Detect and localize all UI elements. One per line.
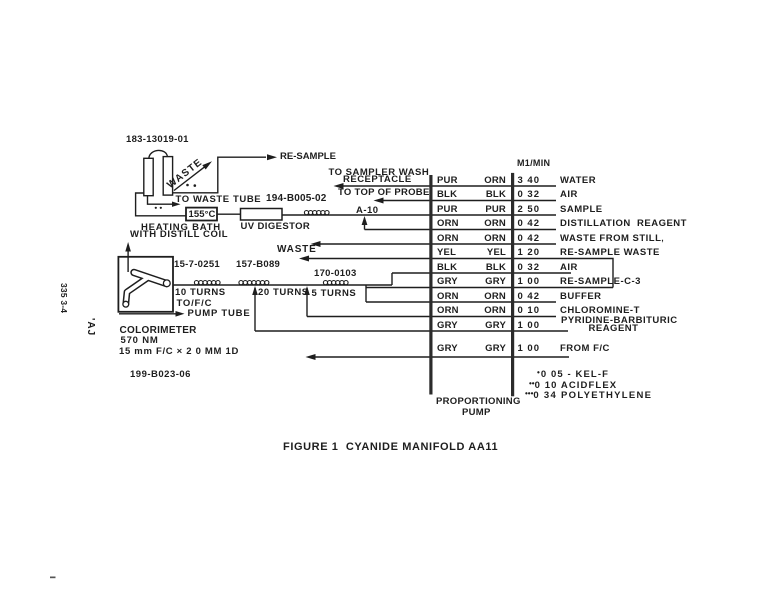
heating bath outline [136,193,186,216]
row 1 line to sampler wash [341,185,556,187]
label RE-SAMPLE [280,152,336,162]
row 12 from f/c line [314,356,569,358]
row 9 buffer [437,292,459,302]
label PUMP [462,408,491,418]
arrowhead row6 left [299,256,309,262]
arrowhead row5 left [311,241,321,247]
colorimeter up arrow shaft [127,247,129,273]
row 6 re-sample waste [437,248,456,258]
waste diagonal wire [174,166,206,190]
arrowhead bath inner [172,202,181,207]
row 9 buffer line [366,301,556,303]
label 10 TURNS [175,288,226,298]
label A-10 [356,206,379,216]
row 6 line re-sample waste with right drop [308,259,614,288]
label 157-B089 [236,260,280,270]
row 4 distillation reagent [437,219,459,229]
arrowhead row1 left [334,183,344,189]
label 5 TURNS [312,289,357,299]
UV digestor box [241,209,283,221]
pump tube arrow under colorimeter [119,313,176,315]
label 570 NM [121,336,159,346]
label 15 mm F/C x 20 MM 1D [119,347,239,357]
row 12 from f/c [437,344,458,354]
main sample line (row 3) [282,214,556,216]
figure title [283,442,498,453]
label TO WASTE TUBE [176,195,262,205]
label M1/MIN [517,159,550,168]
155C box [186,208,217,221]
junction riser x366 [365,285,367,302]
bath inner tube wire [148,196,173,205]
arrowhead colorimeter up [125,242,131,252]
label TO TOP OF PROBE [338,188,430,198]
label COLORIMETER [120,326,197,336]
distill coil left tube [144,158,153,195]
arrowhead row10 up [304,286,310,295]
colorimeter box [118,257,173,312]
label 15-7-0251 [174,260,220,270]
coil 5 turns [323,281,348,285]
coil on sample line [304,211,329,215]
label WASTE rotated [166,158,205,191]
label 170-0103 [314,269,357,279]
wire from distill tube to riser [173,157,266,193]
link 155C box to UV digestor [217,213,241,215]
label TO SAMPLER WASH [329,168,430,178]
main coil line into colorimeter [171,284,392,286]
arrowhead row12 left [306,354,316,360]
page dash mark [50,577,56,579]
row 11 pyridine-barbituric [437,321,458,331]
colorimeter flow cell tube [123,273,170,308]
label RECEPTACLE [343,175,412,185]
row 1 water [437,176,458,186]
row 8 line re-sample-c-3 [366,287,613,289]
footnote acidflex [529,380,617,391]
side number 335 3-4 rotated [59,283,68,313]
row 11 pyridine line with riser [255,288,568,331]
footnote polyethylene [525,390,652,401]
label 183-13019-01 [126,135,189,145]
arrowhead row4 up [362,216,368,225]
arrowhead row2 left [374,198,384,204]
distill coil right tube [163,157,172,196]
label 199-B023-06 [130,370,191,380]
row 7 air [437,263,457,273]
arrowhead pump tube right [176,311,185,317]
row 2 air [437,190,457,200]
row 10 chloromine line with riser [307,288,556,317]
label PUMP TUBE [188,309,251,319]
proportioning pump right rail [511,173,514,396]
label 155 C [189,210,216,220]
row 5 line waste from still [319,243,556,245]
row 8 re-sample-c-3 [437,277,458,287]
arrowhead re-sample [267,154,277,160]
row 3 sample [437,205,458,215]
label 20 TURNS [258,288,309,298]
row 10 chloromine-t [437,306,459,316]
proportioning pump left rail [429,175,432,395]
footnote kel-f [537,369,609,380]
bath dots [155,207,157,209]
label HEATING BATH [141,223,221,233]
row 5 waste from still [437,234,459,244]
side stamp AJ rotated [85,318,95,336]
label UV DIGESTOR [241,222,311,232]
label TO/F/C [177,299,213,309]
waste dots [186,184,189,187]
arrowhead waste diagonal [202,161,212,169]
coil 10 turns [194,281,220,285]
coil 20 turns [239,281,269,285]
label PROPORTIONING [436,397,521,407]
arrowhead row11 up [252,286,258,295]
row 7 air line with drop to coil line [392,273,571,285]
label 194-B005-02 [266,194,327,204]
distill coil top loop [149,150,168,158]
label WITH DISTILL COIL [130,230,228,240]
label WASTE left [277,245,317,255]
row 4 line distillation reagent with riser [365,219,557,230]
row 2 line to top of probe [381,200,556,202]
